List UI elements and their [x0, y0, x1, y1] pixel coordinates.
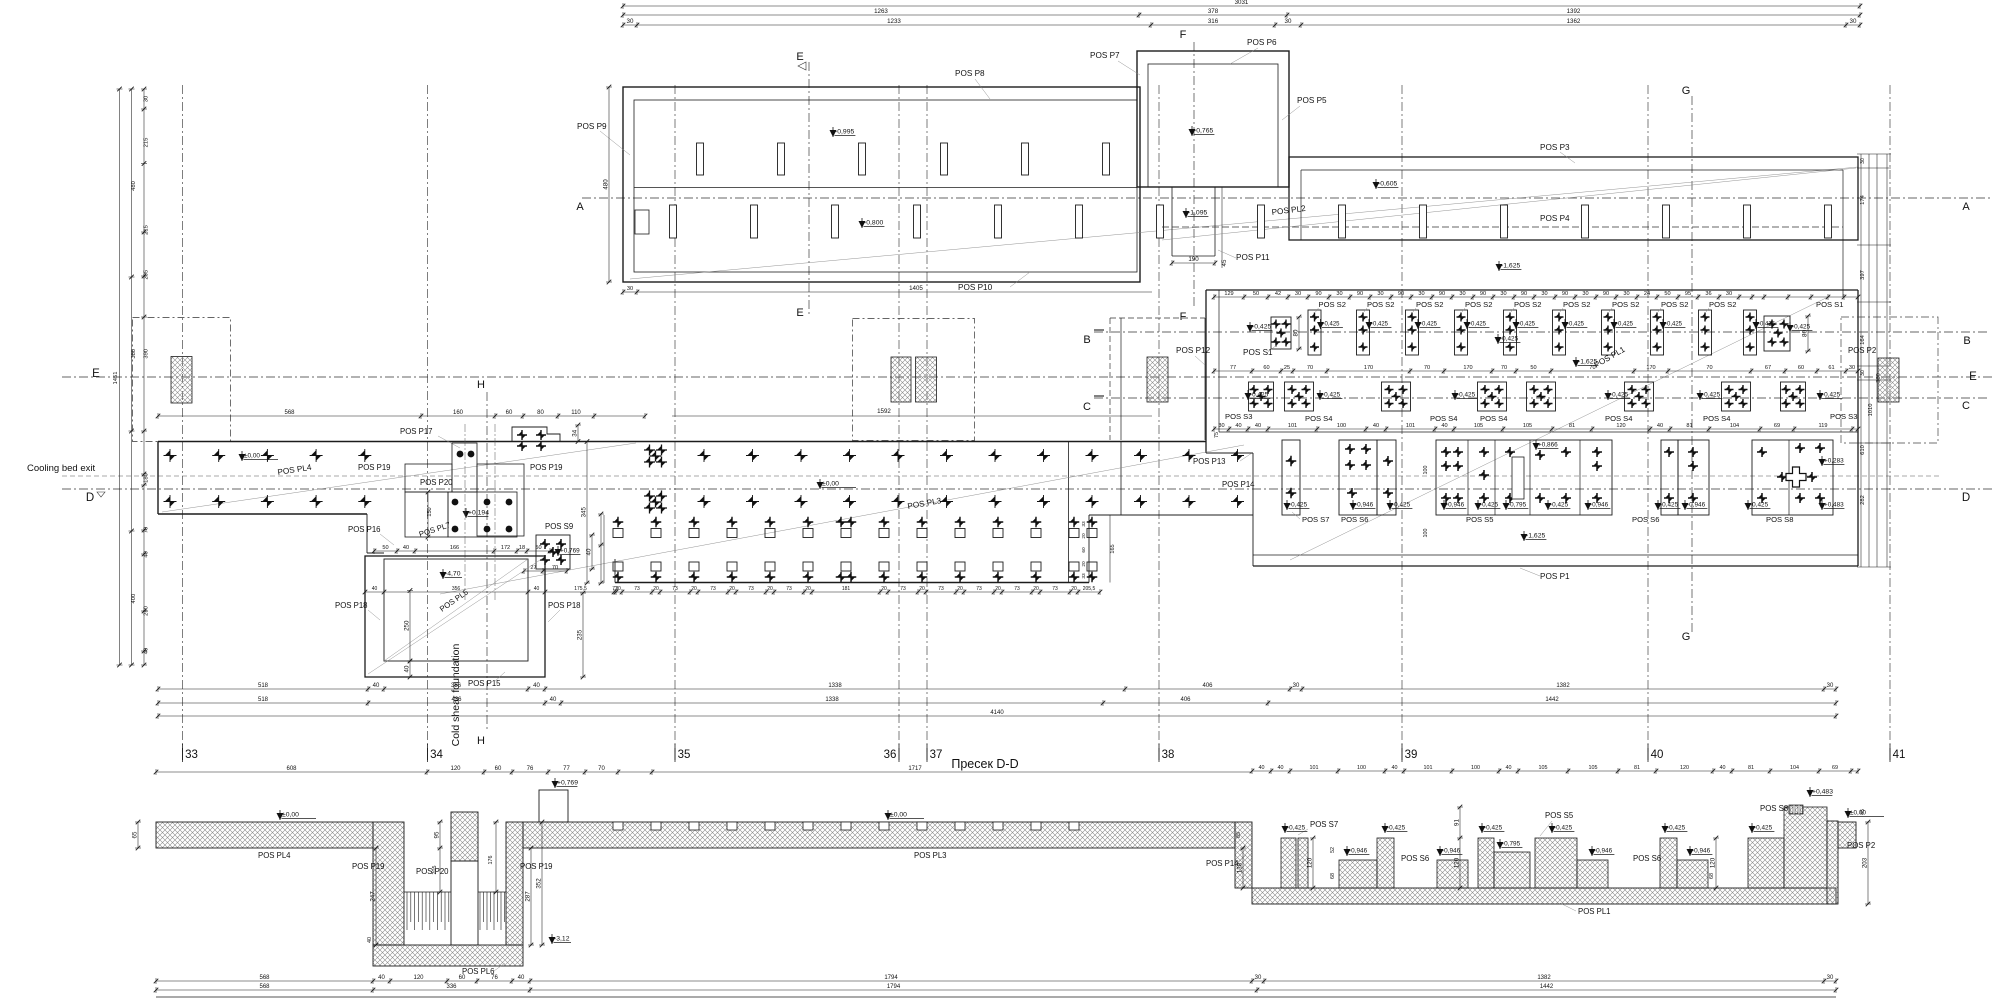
svg-text:40: 40 [1373, 423, 1379, 429]
svg-text:-0,425: -0,425 [1660, 502, 1679, 509]
section dim 120 s6b [1715, 838, 1717, 888]
pit POS PL5 inner [384, 559, 528, 661]
section grid label 36 [898, 748, 900, 762]
svg-text:30: 30 [1860, 158, 1866, 164]
svg-text:80: 80 [1802, 330, 1809, 337]
section bottom dim 2 [156, 989, 1836, 991]
pedestal POS S2 #1 [1308, 310, 1321, 355]
svg-text:60: 60 [495, 766, 502, 772]
bed cross lower 4 [727, 572, 738, 583]
strip cross upper mid 13 [1231, 449, 1244, 462]
POS P5 inner [1148, 64, 1278, 187]
svg-text:90: 90 [1315, 291, 1321, 297]
bed cross lower 14 [1087, 572, 1098, 583]
svg-text:174: 174 [1860, 194, 1866, 204]
svg-text:40: 40 [144, 551, 150, 557]
svg-text:287: 287 [525, 891, 532, 902]
svg-text:30: 30 [1850, 18, 1857, 25]
section grid label 40 [1647, 748, 1649, 762]
bed cross lower 9 [917, 572, 928, 583]
svg-text:D: D [86, 492, 94, 504]
svg-text:190: 190 [1188, 256, 1199, 263]
svg-text:-0,425: -0,425 [1754, 825, 1773, 832]
svg-text:610: 610 [1860, 445, 1866, 455]
section dim 352 287 [530, 848, 532, 945]
strip top edge [158, 441, 1206, 443]
svg-text:203: 203 [1862, 857, 1869, 868]
svg-text:20: 20 [767, 586, 773, 592]
svg-text:-0,425: -0,425 [1484, 825, 1503, 832]
svg-text:±0,00: ±0,00 [890, 812, 907, 819]
svg-text:POS P9: POS P9 [577, 122, 607, 131]
section pedestal S7 col2 [1298, 838, 1308, 888]
bed cross lower 13 [1069, 572, 1080, 583]
svg-text:POS S6: POS S6 [1401, 854, 1429, 863]
POS PL1 diagonal leader [1290, 296, 1830, 560]
POS P8 building inner wall [634, 100, 1137, 272]
svg-text:40: 40 [1441, 423, 1447, 429]
bed cross upper 1 [613, 517, 624, 528]
svg-text:30: 30 [1827, 975, 1834, 981]
svg-text:70: 70 [598, 766, 605, 772]
svg-text:POS P10: POS P10 [958, 283, 993, 292]
svg-text:POS PL6: POS PL6 [462, 967, 495, 976]
POS P17 pad [512, 427, 560, 442]
section pedestal group low [1437, 860, 1468, 888]
svg-text:176: 176 [488, 856, 494, 865]
svg-text:POS S5: POS S5 [1545, 811, 1574, 820]
svg-text:250: 250 [404, 620, 411, 631]
svg-text:90: 90 [1398, 291, 1404, 297]
POS P5 outer [1137, 51, 1289, 187]
section top dim 1717 [652, 771, 1252, 773]
section grid label 37 [926, 748, 928, 762]
svg-text:81: 81 [1569, 423, 1575, 429]
svg-text:120: 120 [1454, 857, 1461, 868]
svg-text:150: 150 [427, 507, 433, 516]
svg-text:61: 61 [1828, 365, 1834, 371]
elevation -0,946 S5d [1585, 503, 1592, 510]
column footing upper 3 [859, 143, 866, 175]
left dim chain ticks outer [117, 88, 123, 90]
svg-text:104: 104 [1730, 423, 1739, 429]
elevation -0,425 S2 #6 [1562, 322, 1569, 329]
bed square lower 8 [879, 562, 889, 571]
svg-text:105: 105 [1539, 765, 1548, 771]
pedestal POS S2 #4 [1455, 310, 1468, 355]
svg-text:1382: 1382 [1556, 683, 1570, 689]
POS P2 hatch [1878, 358, 1899, 402]
strip column footing 5 [1582, 205, 1589, 238]
svg-text:Пресек D-D: Пресек D-D [951, 757, 1018, 771]
svg-text:36: 36 [1705, 291, 1711, 297]
POS P2 dashed box [1841, 317, 1938, 443]
svg-text:73: 73 [1014, 586, 1020, 592]
bed cross lower 11 [993, 572, 1004, 583]
bed square lower 1 [613, 562, 623, 571]
svg-text:POS P19: POS P19 [352, 862, 385, 871]
bed square upper 4 [727, 529, 737, 538]
svg-text:1392: 1392 [1567, 8, 1581, 15]
svg-text:69: 69 [1832, 765, 1838, 771]
svg-text:30: 30 [627, 18, 634, 25]
strip cross upper mid 9 [1037, 449, 1050, 462]
top dim chain 1263/378/1392 [623, 14, 1860, 16]
svg-text:40: 40 [144, 648, 150, 654]
pedestal POS S6 b [1661, 440, 1678, 515]
svg-text:90: 90 [1480, 291, 1486, 297]
elevation -1,095 [1183, 211, 1190, 218]
bed cross upper 3 [689, 517, 700, 528]
svg-text:406: 406 [1180, 697, 1191, 703]
top dim chain 1233/316/1362 [623, 24, 1860, 26]
dim chain strip lower [374, 550, 550, 552]
elevation -1,625 strip [1496, 264, 1503, 271]
elevation +-0,00 mid [817, 482, 824, 489]
svg-text:120: 120 [1680, 765, 1689, 771]
bed square upper 10 [955, 529, 965, 538]
column footing lower 5 [995, 205, 1002, 238]
svg-text:POS S3: POS S3 [1225, 412, 1252, 421]
svg-text:-0,946: -0,946 [1446, 502, 1465, 509]
dim 345 vertical [586, 442, 588, 584]
pad POS S3 #8 [1781, 382, 1806, 411]
section dim 176 [495, 822, 497, 892]
strip cross upper mid 2 [698, 449, 711, 462]
svg-text:60: 60 [1081, 547, 1087, 553]
grid label 41 [1889, 744, 1891, 760]
pedestal POS S2 #5 [1504, 310, 1517, 355]
strip cross lower mid 12 [1183, 495, 1196, 508]
bed cross lower 1 [613, 572, 624, 583]
section dim 203 right [1867, 822, 1869, 904]
pedestal POS S2 #2 [1357, 310, 1370, 355]
dim 30 building bottom [623, 291, 637, 293]
bed cross lower 2 [651, 572, 662, 583]
svg-text:91: 91 [1454, 819, 1461, 826]
svg-text:±0,00: ±0,00 [244, 453, 260, 460]
svg-text:129: 129 [1224, 291, 1233, 297]
svg-text:POS S2: POS S2 [1563, 300, 1590, 309]
strip cross lower left 3 [261, 495, 274, 508]
svg-text:F: F [1180, 29, 1187, 41]
pedestal POS S1 left [1271, 317, 1291, 349]
svg-text:205: 205 [144, 270, 150, 280]
pedestal POS S8 [1752, 440, 1833, 515]
strip cross upper left 3 [261, 449, 274, 462]
section dim 91 right [1459, 807, 1461, 888]
svg-text:336: 336 [446, 984, 457, 990]
section pedestal S5 step [1577, 860, 1608, 888]
grid label 38 [1158, 744, 1160, 760]
svg-text:138: 138 [1237, 862, 1244, 873]
pad POS S9 [536, 535, 570, 569]
svg-text:518: 518 [258, 697, 269, 703]
svg-text:33: 33 [1081, 573, 1087, 579]
elevation -0,425 S2 #4 [1464, 322, 1471, 329]
elevation +0,769 plan [555, 549, 562, 556]
svg-text:20: 20 [653, 586, 659, 592]
bed cross upper 5 [765, 517, 776, 528]
POS PL2 diagonal leader [1162, 168, 1856, 240]
bed square upper 11 [993, 529, 1003, 538]
svg-text:100: 100 [1423, 466, 1429, 475]
pad POS S4 #7 [1722, 382, 1751, 411]
svg-text:70: 70 [144, 527, 150, 533]
strip cross lower mid 8 [989, 495, 1002, 508]
section grid label 34 [427, 748, 429, 762]
elevation +-0,00 section left [277, 813, 284, 820]
svg-text:-0,425: -0,425 [1371, 322, 1389, 328]
dim 1405 [637, 291, 1152, 293]
bed cross lower 10 [955, 572, 966, 583]
section dim 138 [1242, 848, 1244, 888]
svg-text:80: 80 [1293, 329, 1300, 336]
svg-text:C: C [1083, 401, 1091, 413]
pit diagonal 1 [384, 559, 528, 661]
svg-text:A: A [1962, 201, 1970, 213]
svg-text:POS P11: POS P11 [1236, 253, 1270, 262]
strip cross lower mid 13 [1231, 495, 1244, 508]
svg-text:-0,946: -0,946 [1355, 502, 1374, 509]
grid label 34 [427, 744, 429, 760]
svg-text:181: 181 [842, 586, 851, 592]
pad POS S4 #4 [1478, 382, 1507, 411]
svg-text:1233: 1233 [887, 18, 901, 25]
section grid label 41 [1889, 748, 1891, 762]
svg-text:60: 60 [1798, 365, 1804, 371]
elevation -0,425 S4 row [1452, 393, 1459, 400]
strip bottom left [158, 513, 367, 515]
svg-text:85: 85 [1236, 832, 1242, 838]
POS P3 strip inner top [1301, 169, 1843, 171]
bed cross upper 9 [917, 517, 928, 528]
svg-text:1382: 1382 [1537, 975, 1551, 981]
svg-text:-0,425: -0,425 [1469, 322, 1487, 328]
elevation -0,946 g2 [1437, 849, 1444, 856]
svg-text:POS S4: POS S4 [1480, 414, 1507, 423]
POS P3 strip inner right [1842, 170, 1844, 297]
bed square upper 6 [803, 529, 813, 538]
strip column footing 4 [1501, 205, 1508, 238]
elevation -0,425 S2 #7 [1611, 322, 1618, 329]
svg-text:-0,425: -0,425 [1567, 322, 1585, 328]
svg-text:105: 105 [1589, 765, 1598, 771]
svg-text:70: 70 [552, 565, 558, 571]
svg-text:73: 73 [976, 586, 982, 592]
svg-text:215: 215 [144, 225, 150, 235]
pedestal POS S2 #8 [1651, 310, 1664, 355]
svg-text:90: 90 [1357, 291, 1363, 297]
elevation -0,425 S1 right [1787, 325, 1794, 332]
elevation -0,946 S6a [1350, 503, 1357, 510]
strip cross upper mid 12 [1183, 449, 1196, 462]
POS P9 building outer wall [623, 87, 1140, 282]
building diagonal leader [630, 167, 1858, 279]
svg-text:73: 73 [1052, 586, 1058, 592]
svg-text:-0,995: -0,995 [835, 129, 854, 136]
svg-text:-0,795: -0,795 [1508, 502, 1527, 509]
svg-text:POS S8: POS S8 [1766, 515, 1793, 524]
svg-text:105: 105 [1523, 423, 1532, 429]
elevation +0,866 [1533, 443, 1540, 450]
bed cross upper 4 [727, 517, 738, 528]
bed square lower 6 [803, 562, 813, 571]
elevation -0,425 S4 row [1317, 393, 1324, 400]
bed square lower 11 [993, 562, 1003, 571]
svg-text:POS P4: POS P4 [1540, 214, 1570, 223]
axis C [1094, 397, 1990, 399]
svg-text:480: 480 [603, 179, 610, 190]
svg-text:120: 120 [1307, 857, 1314, 868]
bed square lower 3 [689, 562, 699, 571]
svg-text:POS S7: POS S7 [1302, 515, 1329, 524]
elevation -0,425 S2 #3 [1415, 322, 1422, 329]
box hatch 1 [891, 357, 911, 402]
column footing lower 4 [914, 205, 921, 238]
bed square lower 10 [955, 562, 965, 571]
section line G-G [1691, 96, 1693, 632]
svg-text:40: 40 [1651, 749, 1664, 761]
bed cross lower 7 [836, 572, 847, 583]
svg-text:POS P2: POS P2 [1848, 346, 1876, 355]
shear base center column [452, 443, 477, 492]
section step wall right [1235, 822, 1252, 888]
svg-text:B: B [1963, 335, 1970, 347]
column footing lower 7 [1157, 205, 1164, 238]
svg-text:E: E [92, 368, 100, 380]
section pedestal S6b low [1677, 860, 1708, 888]
svg-text:A: A [576, 201, 584, 213]
svg-text:-0,425: -0,425 [1287, 825, 1306, 832]
svg-text:68: 68 [1330, 873, 1336, 879]
section dim 120 52 68 [1312, 838, 1314, 888]
svg-text:20: 20 [1071, 586, 1077, 592]
building mid wall line [634, 187, 1137, 189]
bed cross upper 11 [993, 517, 1004, 528]
top dim chain 3031 [623, 5, 1860, 7]
svg-text:50: 50 [1253, 291, 1259, 297]
svg-text:316: 316 [1208, 18, 1219, 25]
svg-text:POS S4: POS S4 [1703, 414, 1730, 423]
elevation -0,425 S2 low [1495, 337, 1502, 344]
elevation -0,425 S2 #5 [1513, 322, 1520, 329]
bed square lower 9 [917, 562, 927, 571]
grid label 37 [926, 744, 928, 760]
bed square upper 2 [651, 529, 661, 538]
svg-text:70: 70 [1307, 365, 1313, 371]
elevation -0,425 S4 row [1605, 393, 1612, 400]
bed square lower 2 [651, 562, 661, 571]
svg-text:70: 70 [1501, 365, 1507, 371]
grid line 41 [1889, 85, 1891, 752]
strip cross lower left 1 [164, 495, 177, 508]
strip column footing 8 [1825, 205, 1832, 238]
svg-text:-0,946: -0,946 [1687, 502, 1706, 509]
elevation +0,769 section [552, 781, 559, 788]
svg-text:34: 34 [430, 749, 443, 761]
pedestal POS S2 #7 [1602, 310, 1615, 355]
svg-text:30: 30 [1218, 423, 1224, 429]
svg-text:-0,800: -0,800 [864, 220, 883, 227]
bed square upper 9 [917, 529, 927, 538]
dim 480 building side [608, 87, 610, 282]
svg-text:380: 380 [131, 349, 137, 359]
bed square upper 14 [1087, 529, 1097, 538]
svg-text:1717: 1717 [908, 766, 922, 772]
svg-text:397: 397 [1860, 270, 1866, 280]
svg-text:164: 164 [1860, 334, 1866, 344]
svg-text:60: 60 [506, 410, 513, 416]
section grid label 38 [1158, 748, 1160, 762]
pedestal POS S2 #3 [1406, 310, 1419, 355]
section grid label 33 [182, 748, 184, 762]
section pedestal S8 left [1748, 838, 1784, 888]
grid line 34 [427, 85, 429, 752]
svg-text:345: 345 [581, 507, 588, 518]
svg-text:73: 73 [748, 586, 754, 592]
svg-text:166: 166 [450, 545, 459, 551]
elevation -0,425 s7 [1282, 826, 1289, 833]
svg-text:40: 40 [404, 665, 411, 672]
plan bottom dim chain 1 [158, 688, 1836, 690]
svg-text:POS P6: POS P6 [1247, 38, 1277, 47]
svg-text:-0,425: -0,425 [1616, 322, 1634, 328]
dim 80 S1 [1298, 317, 1300, 349]
svg-text:POS P12: POS P12 [1176, 346, 1211, 355]
column footing lower 6 [1076, 205, 1083, 238]
strip column footing 2 [1339, 205, 1346, 238]
svg-text:34: 34 [572, 429, 579, 436]
strip cross lower mid 1 [644, 491, 655, 502]
svg-text:POS S4: POS S4 [1305, 414, 1332, 423]
svg-text:215: 215 [144, 138, 150, 148]
svg-text:90: 90 [1439, 291, 1445, 297]
svg-text:D: D [1962, 492, 1970, 504]
svg-text:41: 41 [1893, 749, 1906, 761]
svg-text:68: 68 [1709, 873, 1715, 879]
POS PL4 diagonal [162, 443, 636, 512]
svg-text:POS P18: POS P18 [335, 601, 368, 610]
axis D [62, 488, 1992, 490]
strip cross upper left 2 [212, 449, 225, 462]
svg-text:400: 400 [131, 594, 137, 604]
svg-text:30: 30 [1860, 370, 1866, 376]
svg-text:20: 20 [805, 586, 811, 592]
svg-text:20: 20 [957, 586, 963, 592]
svg-text:-0,425: -0,425 [1252, 324, 1271, 331]
svg-text:20: 20 [919, 586, 925, 592]
svg-text:40: 40 [1259, 765, 1265, 771]
svg-text:+0,769: +0,769 [560, 548, 580, 555]
svg-text:50: 50 [1664, 291, 1670, 297]
POS PL3 diagonal [440, 445, 1244, 594]
section right wall [1827, 821, 1838, 904]
svg-text:POS P20: POS P20 [420, 478, 453, 487]
svg-text:-0,946: -0,946 [1594, 848, 1613, 855]
strip left edge [157, 442, 159, 515]
svg-text:20: 20 [1081, 561, 1087, 567]
svg-text:-0,425: -0,425 [1480, 502, 1499, 509]
svg-text:-0,425: -0,425 [1289, 502, 1308, 509]
S-block inner top line [1219, 431, 1858, 433]
svg-text:40: 40 [1235, 423, 1241, 429]
svg-text:104: 104 [1790, 765, 1799, 771]
section line H-H [486, 392, 488, 732]
svg-text:-0,425: -0,425 [1665, 322, 1683, 328]
bed square lower 4 [727, 562, 737, 571]
svg-text:120: 120 [413, 975, 424, 981]
